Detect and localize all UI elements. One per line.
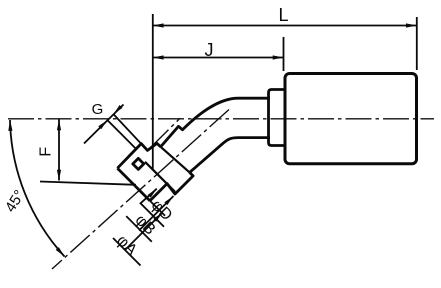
- svg-text:L: L: [278, 5, 288, 25]
- dimension line J: [153, 57, 284, 59]
- arrow J left: [153, 55, 164, 59]
- underline phi A: [113, 238, 141, 266]
- arrow G upper: [113, 105, 122, 114]
- nut upper staircase profile: [117, 143, 160, 168]
- arrow phi B: [164, 196, 173, 205]
- sealing face extension line: [150, 201, 165, 216]
- 45-degree leg / tube centerline: [52, 110, 229, 270]
- svg-text:φA: φA: [113, 232, 140, 259]
- arrow L right: [406, 23, 417, 27]
- arrow phi D: [148, 189, 157, 198]
- o-ring: [133, 158, 144, 169]
- head axis stub: [150, 118, 180, 148]
- arrow phi A: [153, 213, 162, 222]
- arrow F bottom: [57, 170, 61, 181]
- F dimension line: [58, 120, 60, 181]
- svg-text:J: J: [205, 40, 214, 60]
- J right extension line: [283, 37, 285, 71]
- leader phi D: [141, 189, 165, 227]
- leader phi B: [139, 196, 174, 231]
- arrow J right: [273, 55, 284, 59]
- dimension line L: [153, 25, 417, 27]
- svg-text:F: F: [37, 147, 54, 157]
- arrow L left: [153, 23, 164, 27]
- arrow arc bottom: [56, 247, 65, 256]
- boss lower outline: [150, 172, 193, 200]
- crimp shell: [285, 74, 417, 164]
- sealing face: [117, 168, 149, 201]
- tube upper outline with bend: [161, 98, 270, 147]
- arrow arc top: [8, 120, 12, 131]
- arrow G lower: [98, 120, 107, 129]
- svg-text:G: G: [92, 101, 104, 118]
- L/J left extension line: [152, 14, 154, 170]
- collar: [269, 90, 285, 146]
- G extension line 2: [113, 114, 147, 150]
- underline phi B: [126, 216, 152, 242]
- 45 degree arc: [10, 120, 65, 257]
- horizontal centerline: [8, 118, 434, 120]
- flange front internal edge: [145, 162, 175, 192]
- G extension line 1: [107, 120, 136, 149]
- G dimension line: [84, 105, 124, 144]
- arrow F top: [57, 120, 61, 131]
- leader phi A: [125, 213, 162, 250]
- neck joint internal edge: [161, 147, 190, 173]
- F lower reference line (to face centre): [40, 182, 136, 185]
- L right extension line: [416, 17, 418, 70]
- tube lower outline with bend: [190, 138, 270, 173]
